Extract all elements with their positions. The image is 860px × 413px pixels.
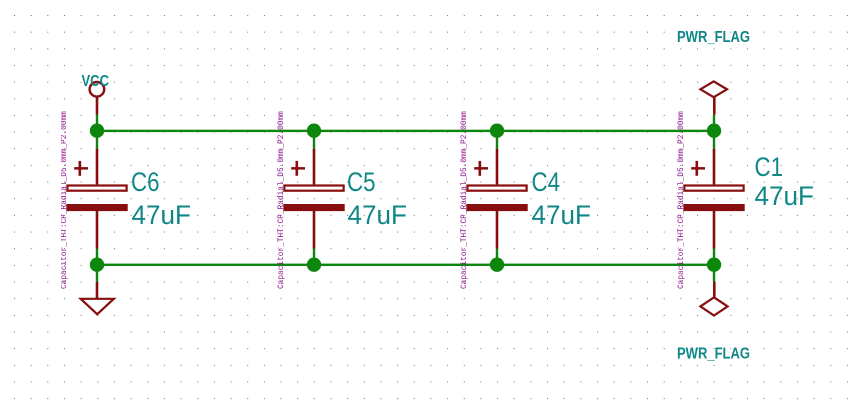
svg-text:47uF: 47uF [532, 200, 592, 230]
svg-text:PWR_FLAG: PWR_FLAG [677, 346, 750, 363]
svg-text:PWR_FLAG: PWR_FLAG [677, 29, 750, 46]
svg-text:C5: C5 [347, 167, 376, 197]
svg-text:C4: C4 [532, 167, 561, 197]
svg-text:Capacitor_THT:CP_Radial_D5.0mm: Capacitor_THT:CP_Radial_D5.0mm_P2.00mm [61, 111, 69, 289]
svg-text:Capacitor_THT:CP_Radial_D5.0mm: Capacitor_THT:CP_Radial_D5.0mm_P2.00mm [278, 111, 286, 289]
svg-text:47uF: 47uF [348, 200, 408, 230]
svg-text:VCC: VCC [82, 73, 110, 90]
svg-text:C6: C6 [131, 167, 160, 197]
svg-text:C1: C1 [755, 152, 784, 182]
svg-text:47uF: 47uF [132, 200, 192, 230]
svg-text:47uF: 47uF [755, 181, 815, 211]
svg-text:Capacitor_THT:CP_Radial_D5.0mm: Capacitor_THT:CP_Radial_D5.0mm_P2.00mm [461, 111, 469, 289]
svg-text:Capacitor_THT:CP_Radial_D5.0mm: Capacitor_THT:CP_Radial_D5.0mm_P2.00mm [678, 111, 686, 289]
